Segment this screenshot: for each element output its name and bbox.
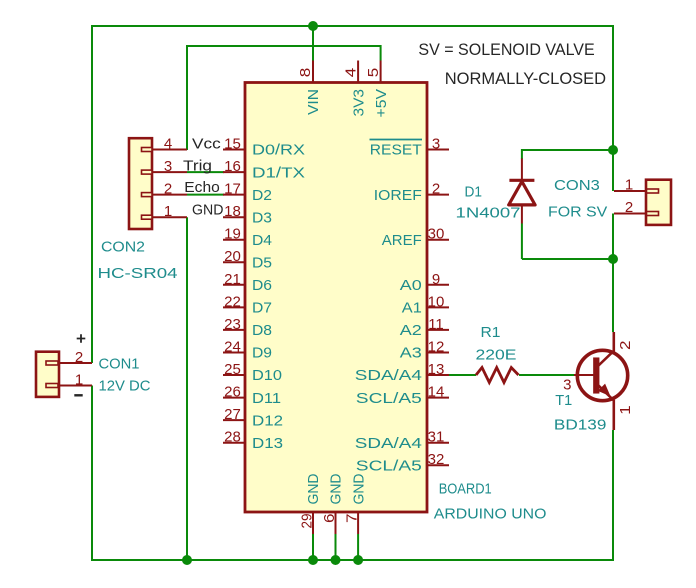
svg-text:1: 1 xyxy=(164,203,172,220)
svg-text:CON1: CON1 xyxy=(99,355,140,372)
svg-text:17: 17 xyxy=(224,181,241,198)
svg-text:9: 9 xyxy=(432,271,440,288)
svg-text:20: 20 xyxy=(224,248,241,265)
svg-text:D1: D1 xyxy=(465,184,483,201)
svg-text:2: 2 xyxy=(432,181,440,198)
svg-text:1: 1 xyxy=(75,371,83,388)
svg-text:2: 2 xyxy=(617,341,634,351)
svg-text:14: 14 xyxy=(428,384,445,401)
svg-text:3: 3 xyxy=(164,158,172,175)
svg-text:GND: GND xyxy=(328,473,345,504)
svg-text:A2: A2 xyxy=(400,322,422,339)
svg-text:SCL/A5: SCL/A5 xyxy=(356,457,422,474)
svg-text:3: 3 xyxy=(563,377,571,394)
svg-text:SCL/A5: SCL/A5 xyxy=(356,390,422,407)
svg-text:7: 7 xyxy=(344,514,361,524)
svg-text:CON2: CON2 xyxy=(101,239,145,256)
svg-text:5: 5 xyxy=(365,68,382,78)
svg-text:R1: R1 xyxy=(481,324,501,341)
svg-text:10: 10 xyxy=(428,293,445,310)
svg-text:19: 19 xyxy=(224,226,241,243)
svg-text:BOARD1: BOARD1 xyxy=(439,480,492,497)
svg-text:FOR SV: FOR SV xyxy=(548,204,608,221)
svg-text:28: 28 xyxy=(224,429,241,446)
svg-text:Echo: Echo xyxy=(184,179,220,196)
svg-text:IOREF: IOREF xyxy=(374,187,422,204)
svg-text:SV = SOLENOID VALVE: SV = SOLENOID VALVE xyxy=(418,40,594,59)
svg-text:3: 3 xyxy=(432,136,440,153)
svg-text:GND: GND xyxy=(192,202,224,219)
svg-text:BD139: BD139 xyxy=(554,417,607,434)
svg-text:18: 18 xyxy=(224,203,241,220)
svg-text:1: 1 xyxy=(625,177,633,194)
svg-text:Vcc: Vcc xyxy=(192,136,221,153)
svg-text:32: 32 xyxy=(428,451,445,468)
svg-text:22: 22 xyxy=(224,293,241,310)
svg-text:D1/TX: D1/TX xyxy=(252,164,305,181)
svg-text:15: 15 xyxy=(224,136,241,153)
svg-text:RESET: RESET xyxy=(370,142,422,159)
svg-text:25: 25 xyxy=(224,361,241,378)
svg-text:D6: D6 xyxy=(252,277,272,294)
svg-text:D13: D13 xyxy=(252,435,283,452)
svg-text:D5: D5 xyxy=(252,254,272,271)
svg-text:D3: D3 xyxy=(252,209,272,226)
svg-text:13: 13 xyxy=(428,361,445,378)
svg-text:31: 31 xyxy=(428,429,445,446)
svg-text:16: 16 xyxy=(224,158,241,175)
svg-text:1: 1 xyxy=(617,405,634,415)
svg-text:2: 2 xyxy=(625,199,633,216)
svg-text:GND: GND xyxy=(305,473,322,504)
svg-text:D11: D11 xyxy=(252,390,281,407)
svg-text:NORMALLY-CLOSED: NORMALLY-CLOSED xyxy=(445,69,606,88)
svg-text:SDA/A4: SDA/A4 xyxy=(355,367,422,384)
svg-text:ARDUINO UNO: ARDUINO UNO xyxy=(434,506,547,523)
svg-text:2: 2 xyxy=(164,180,172,197)
svg-text:A3: A3 xyxy=(400,345,422,362)
svg-text:GND: GND xyxy=(350,473,367,504)
svg-text:VIN: VIN xyxy=(305,89,322,115)
svg-text:D2: D2 xyxy=(252,187,272,204)
svg-text:D0/RX: D0/RX xyxy=(252,142,305,159)
svg-text:D12: D12 xyxy=(252,412,283,429)
svg-text:CON3: CON3 xyxy=(554,177,600,194)
svg-text:HC-SR04: HC-SR04 xyxy=(98,265,178,282)
svg-text:24: 24 xyxy=(224,339,241,356)
svg-text:4: 4 xyxy=(164,135,172,152)
svg-text:220E: 220E xyxy=(476,347,517,364)
svg-text:12V DC: 12V DC xyxy=(99,378,151,395)
svg-text:A1: A1 xyxy=(402,300,422,317)
svg-text:26: 26 xyxy=(224,384,241,401)
svg-text:AREF: AREF xyxy=(382,232,422,249)
svg-text:23: 23 xyxy=(224,316,241,333)
svg-text:SDA/A4: SDA/A4 xyxy=(355,435,422,452)
svg-text:11: 11 xyxy=(428,316,444,333)
svg-text:D4: D4 xyxy=(252,232,272,249)
svg-text:D7: D7 xyxy=(252,300,272,317)
svg-text:2: 2 xyxy=(75,349,83,366)
svg-text:21: 21 xyxy=(224,271,241,288)
svg-text:A0: A0 xyxy=(400,277,422,294)
svg-text:Trig: Trig xyxy=(183,158,212,175)
svg-text:12: 12 xyxy=(428,339,445,356)
svg-text:4: 4 xyxy=(342,68,359,78)
svg-text:27: 27 xyxy=(224,406,241,423)
svg-text:3V3: 3V3 xyxy=(350,89,367,117)
svg-text:6: 6 xyxy=(321,514,338,524)
svg-text:D9: D9 xyxy=(252,345,272,362)
svg-text:D8: D8 xyxy=(252,322,272,339)
svg-text:30: 30 xyxy=(428,226,445,243)
svg-text:T1: T1 xyxy=(555,392,572,409)
svg-text:+5V: +5V xyxy=(373,88,390,117)
svg-text:D10: D10 xyxy=(252,367,282,384)
svg-text:1N4007: 1N4007 xyxy=(456,205,521,222)
svg-text:29: 29 xyxy=(299,514,316,529)
svg-text:8: 8 xyxy=(297,68,314,78)
